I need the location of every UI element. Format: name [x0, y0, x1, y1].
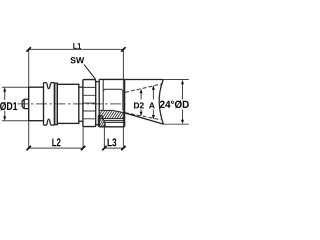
- collar body: [29, 87, 44, 121]
- wire L1-L3 extension right: [122, 49, 124, 148]
- wire L2 extension left: [28, 121, 30, 148]
- groove before nut: [96, 82, 100, 125]
- bell top silhouette: [125, 79, 163, 81]
- neck groove: [79, 87, 83, 121]
- bell mouth arc: [159, 80, 163, 125]
- dimension OD1 extension lines: [2, 87, 28, 121]
- dimension OD: [182, 82, 184, 123]
- dimension A: [152, 87, 154, 118]
- rib 2: [48, 83, 55, 126]
- bell bottom extension to OD: [163, 123, 188, 125]
- centerline: [18, 103, 126, 105]
- thread lines: [103, 121, 124, 123]
- bell lower silhouette: [125, 113, 164, 124]
- ring washer: [55, 83, 58, 125]
- dimension D2: [140, 91, 142, 115]
- rib 1: [44, 83, 48, 126]
- hidden cone upper dashed: [125, 84, 163, 93]
- hex flats lines: [83, 87, 96, 118]
- thread boss: [103, 89, 123, 110]
- hex SW section: [83, 80, 96, 127]
- sleeve: [57, 84, 79, 123]
- hidden cone lower dashed: [125, 113, 161, 120]
- swivel nut outline: [99, 79, 124, 126]
- wedge edge: [98, 115, 105, 126]
- dimension OD1: [4, 89, 6, 120]
- dimension L3: [104, 147, 123, 149]
- label SW with leader: [70, 57, 84, 63]
- wire L3 extension left: [103, 124, 105, 148]
- dimension L1: [29, 48, 124, 50]
- bell top extension to OD: [163, 79, 189, 81]
- wire L1 extension left: [28, 49, 30, 87]
- dimension L2: [29, 147, 83, 149]
- nut shoulder line: [102, 79, 104, 110]
- bore bottom edge: [99, 109, 112, 111]
- plug tip: [22, 99, 29, 108]
- wire L2 extension right: [82, 127, 84, 148]
- cone line in section: [112, 110, 124, 113]
- hatch band bottom line: [99, 118, 124, 120]
